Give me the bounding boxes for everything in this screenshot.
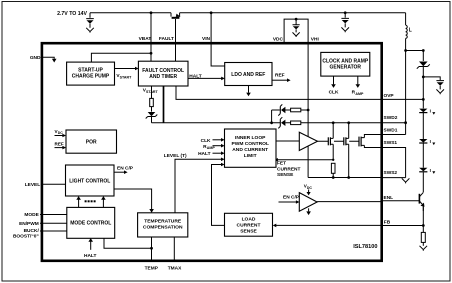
svg-text:SWD1: SWD1: [384, 127, 398, 133]
svg-text:ISL78100: ISL78100: [353, 244, 377, 250]
wire R3 to VHI line: [301, 109, 308, 111]
resistor R1 (FB current sense): [421, 232, 425, 242]
diode D1 (boost rectifier, zener-style): [417, 62, 430, 77]
svg-text:DC: DC: [307, 186, 313, 190]
capacitor C4 (between VDC and VHI pins): [284, 19, 308, 42]
transistor Q1 (pass FET in top rail): [171, 13, 181, 43]
svg-text:SWD2: SWD2: [384, 115, 398, 121]
wire switch node to diode: [406, 51, 424, 62]
svg-text:COMPENSATION: COMPENSATION: [143, 225, 183, 231]
svg-text:VBAT: VBAT: [139, 36, 152, 42]
LED D3: [419, 139, 427, 143]
wire FAULT internal: [175, 43, 177, 62]
wire VSTART arrow to fault control: [115, 67, 139, 80]
wire bootstrap rail to SWD2: [152, 122, 384, 124]
svg-text:POR: POR: [86, 140, 97, 146]
wire R5 to SWS2 rail: [332, 173, 334, 177]
wire RAMP output arrow: [357, 76, 359, 84]
ground (below C2): [341, 27, 349, 32]
wire SWD1 external: [383, 51, 406, 135]
capacitor C2 (top decoupling cap): [341, 13, 349, 28]
op-amp U1 (gate driver): [299, 132, 317, 150]
wire FET current sense node: [278, 159, 334, 161]
wire SWD2 external: [383, 122, 406, 124]
capacitor C1 (input cap at 2.7V-14V node): [86, 13, 94, 28]
svg-text:LDO AND REF: LDO AND REF: [231, 72, 265, 78]
resistor R2 (VSTART series): [150, 98, 154, 106]
label I arrow for D4: [430, 168, 436, 174]
block CLOCK AND RAMP GENERATOR: [321, 52, 370, 76]
svg-text:HALT: HALT: [84, 253, 97, 259]
capacitor C3 (output cap): [436, 81, 444, 90]
node junction dots on top rail: [150, 11, 153, 14]
svg-text:START: START: [120, 75, 133, 79]
block POR: [66, 130, 117, 153]
block MODE CONTROL: [67, 207, 115, 238]
resistor R5 (FET sense): [331, 163, 335, 173]
svg-text:START: START: [146, 90, 159, 94]
svg-text:CLK: CLK: [329, 89, 339, 95]
svg-text:LOAD: LOAD: [242, 217, 256, 223]
svg-text:VIN: VIN: [202, 36, 211, 42]
wire EN/PWM input: [40, 222, 67, 224]
svg-text:HALT: HALT: [198, 151, 211, 157]
inductor L1: [406, 13, 408, 51]
block FAULT CONTROL AND TIMER: [138, 61, 188, 86]
wire BUCK/BOOST input: [40, 230, 67, 232]
svg-text:SWS2: SWS2: [384, 170, 398, 176]
wire driver output gate bus: [318, 140, 359, 142]
svg-text:DC: DC: [58, 131, 64, 135]
svg-text:FB: FB: [384, 220, 391, 226]
svg-text:AND TIMER: AND TIMER: [149, 74, 177, 80]
svg-text:VHI: VHI: [311, 36, 320, 42]
svg-text:CHARGE PUMP: CHARGE PUMP: [72, 74, 110, 80]
wire MODE input: [40, 214, 67, 216]
block INNER LOOP PWM CONTROL AND CURRENT LIMIT: [225, 129, 277, 167]
svg-text:AMP: AMP: [207, 146, 216, 150]
svg-text:PWM CONTROL: PWM CONTROL: [231, 141, 269, 147]
svg-text:AND CURRENT: AND CURRENT: [232, 147, 268, 153]
wire VBAT internal: [150, 13, 152, 61]
wire mode control to temp line: [104, 238, 152, 248]
svg-text:TMAX: TMAX: [168, 265, 182, 271]
wire CLK output arrow: [333, 76, 335, 84]
svg-text:REF: REF: [55, 141, 64, 146]
wire REF output arrow: [272, 73, 291, 82]
ground (SWS return, arrow style): [402, 178, 410, 183]
label I arrow for D2: [430, 109, 436, 115]
resistor R3 (bootstrap upper): [291, 108, 301, 112]
svg-text:L: L: [409, 28, 412, 34]
wire ENL output: [317, 201, 383, 203]
wire TMAX pin: [173, 237, 175, 260]
svg-text:MODE: MODE: [24, 212, 39, 218]
wire HALT arrow to LDO: [188, 73, 225, 80]
block LIGHT CONTROL: [66, 165, 115, 196]
svg-text:VDC: VDC: [273, 36, 284, 42]
wire fault control drop (thick): [163, 86, 165, 123]
svg-text:TEMPERATURE: TEMPERATURE: [144, 219, 182, 225]
wire top supply rail: [90, 12, 406, 14]
svg-text:GENERATOR: GENERATOR: [330, 64, 362, 70]
wire VSTART pin of fault control: [143, 86, 159, 98]
svg-text:I: I: [430, 168, 431, 173]
block TEMPERATURE COMPENSATION: [138, 213, 188, 237]
wire TEMP pin: [151, 237, 153, 260]
svg-text:LEVEL (T): LEVEL (T): [164, 153, 187, 159]
wire LED string rail: [422, 77, 424, 192]
ground (below C4): [293, 32, 300, 37]
svg-text:MODE CONTROL: MODE CONTROL: [70, 221, 111, 227]
svg-text:CLK: CLK: [201, 138, 211, 144]
wire inner loop to driver input: [276, 140, 299, 142]
wire VHI internal supply: [307, 43, 309, 178]
svg-text:I: I: [430, 109, 431, 114]
ground (LDO internal arrow): [248, 86, 250, 93]
svg-text:EN C/P: EN C/P: [283, 194, 300, 200]
wire VIN internal to LDO: [211, 13, 225, 66]
wire internal SWS2 ground rail: [308, 177, 383, 179]
diode D6 (bootstrap upper, zener-style): [272, 104, 291, 115]
wire mode-light link arrows: [79, 200, 104, 208]
wire SWS2 external: [383, 177, 406, 179]
block START-UP CHARGE PUMP: [67, 62, 115, 85]
transistor Q5 (power FET SWD1/SWS1): [359, 135, 383, 148]
block LDO AND REF: [225, 63, 272, 86]
wire bootstrap branch stub: [271, 110, 273, 123]
svg-text:BUCK/: BUCK/: [24, 228, 40, 234]
label I arrow for D3: [430, 139, 436, 145]
wire FB node: [383, 206, 423, 233]
svg-text:BOOST/“0”: BOOST/“0”: [13, 234, 39, 240]
wire LEVEL input: [41, 183, 66, 185]
svg-text:LIMIT: LIMIT: [244, 153, 257, 159]
transistor Q4 (power FET): [344, 123, 349, 178]
transistor Q3 (power FET): [328, 123, 333, 160]
diode D5 (VSTART zener): [146, 112, 158, 123]
LED D4: [419, 168, 427, 172]
svg-text:INNER LOOP: INNER LOOP: [235, 135, 266, 141]
svg-text:FAULT: FAULT: [159, 36, 174, 42]
LED D2: [419, 109, 427, 113]
svg-text:SENSE: SENSE: [240, 229, 257, 235]
svg-text:OVP: OVP: [384, 93, 395, 99]
svg-text:CURRENT: CURRENT: [277, 166, 301, 172]
svg-text:2.7V TO 14V: 2.7V TO 14V: [57, 11, 87, 17]
svg-text:AMP: AMP: [355, 92, 364, 96]
svg-text:FET: FET: [277, 161, 286, 167]
block LOAD CURRENT SENSE: [225, 213, 273, 236]
transistor Q2 (external NPN, LED return): [383, 192, 425, 211]
wire R2 to D5: [151, 107, 153, 112]
svg-text:LEVEL: LEVEL: [25, 182, 41, 188]
svg-text:ENL: ENL: [384, 195, 394, 201]
ground (below R1): [420, 246, 428, 251]
svg-text:TEMP: TEMP: [145, 265, 159, 271]
wire HALT input arrow from below: [90, 242, 92, 250]
svg-text:CURRENT: CURRENT: [237, 223, 261, 229]
wire output node branch to C3: [423, 77, 440, 80]
svg-text:GND: GND: [30, 55, 41, 61]
wire light control to temp comp: [114, 189, 152, 209]
wire charge pump top to VBAT line: [91, 53, 151, 62]
wire OVP internal from fault control: [176, 86, 383, 99]
svg-text:REF: REF: [275, 73, 285, 79]
diode D7 (bootstrap lower, zener-style): [278, 117, 285, 128]
wire SWS1 external: [383, 148, 406, 178]
wire OVP to LED rail: [383, 98, 423, 100]
resistor R4 (bootstrap lower): [291, 121, 301, 125]
ground (GND arrow inside chip): [52, 59, 57, 63]
wire load sense to inner loop arrow: [212, 165, 225, 226]
svg-text:SENSE: SENSE: [277, 172, 294, 178]
svg-text:SWS1: SWS1: [384, 140, 398, 146]
ground (below C1, arrow style): [86, 28, 94, 33]
svg-text:EN C/P: EN C/P: [117, 165, 134, 171]
wire GND pin: [41, 57, 55, 59]
ground (buffer U2): [308, 208, 310, 211]
svg-text:LIGHT CONTROL: LIGHT CONTROL: [69, 179, 110, 185]
wire FB to load sense arrow: [276, 224, 383, 226]
ground (below C3): [436, 89, 444, 94]
svg-text:EN/PWM: EN/PWM: [19, 221, 39, 227]
chip boundary ISL78100: [42, 43, 382, 261]
svg-text:I: I: [430, 139, 431, 144]
